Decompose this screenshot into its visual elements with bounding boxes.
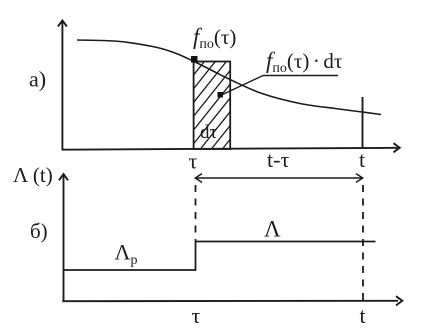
square dot inside rectangle (218, 92, 224, 98)
y-axis of graph a (58, 21, 67, 150)
svg-text:τ: τ (189, 149, 198, 174)
dashed line at t (362, 185, 364, 301)
svg-text:τ: τ (192, 303, 201, 328)
underline of f_по(τ)·dτ (263, 75, 338, 77)
svg-text:t-τ: t-τ (267, 147, 289, 172)
y-axis of graph b (59, 174, 68, 302)
svg-text:Λ: Λ (264, 217, 281, 242)
dashed line at τ (195, 185, 197, 241)
svg-text:б): б) (30, 219, 48, 243)
leader line to dot (222, 76, 264, 96)
tick at t on graph a (362, 97, 364, 149)
svg-text:t: t (360, 303, 366, 328)
rectangle border (194, 62, 231, 150)
svg-text:t: t (359, 147, 365, 172)
x-axis of graph a (62, 143, 400, 152)
step function Λ(t) (63, 242, 376, 271)
hatched rectangle (area element dτ) (120, 59, 294, 153)
x-axis of graph b (62, 296, 402, 305)
svg-text:Λ (t): Λ (t) (13, 163, 53, 187)
svg-text:fпо(τ): fпо(τ) (193, 24, 236, 52)
double-headed arrow between τ and t (195, 174, 362, 183)
svg-text:fпо(τ)·dτ: fпо(τ)·dτ (266, 48, 342, 76)
curve f(t) of graph a (77, 40, 381, 115)
square dot at curve/rect corner (191, 56, 198, 63)
svg-text:dτ: dτ (200, 122, 218, 143)
svg-text:а): а) (29, 67, 46, 92)
svg-text:Λр: Λр (115, 240, 138, 269)
